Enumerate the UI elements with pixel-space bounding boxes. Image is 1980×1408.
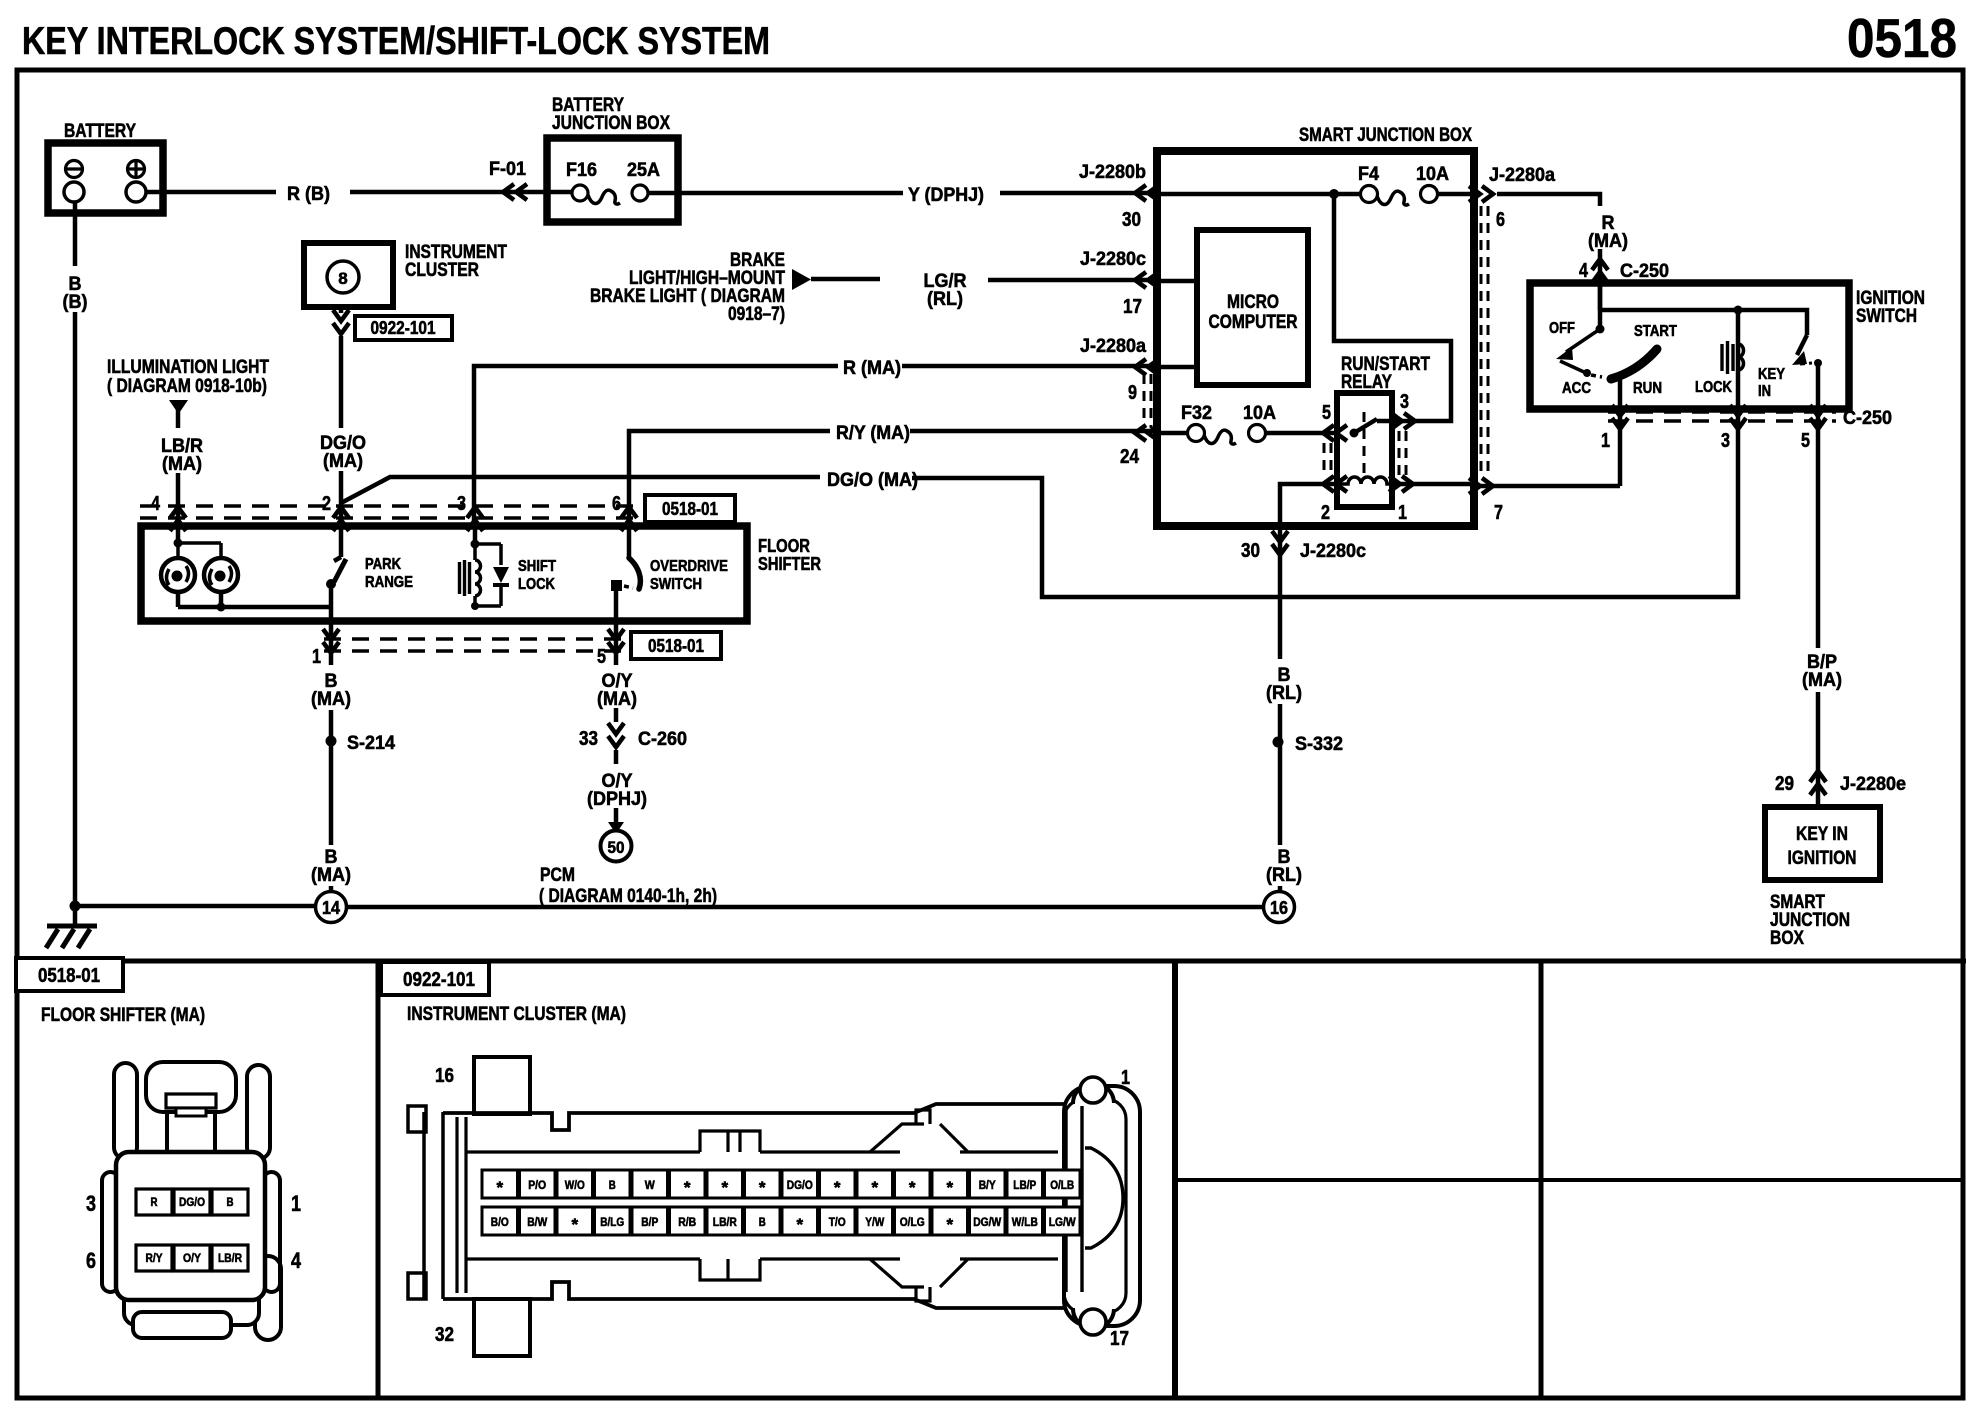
pin 5 arrows — [608, 629, 624, 653]
dashed connector lines above floor shifter — [140, 506, 642, 518]
relay pin 1 wire — [1392, 482, 1474, 487]
svg-text:ILLUMINATION LIGHT: ILLUMINATION LIGHT — [107, 357, 269, 378]
svg-text:17: 17 — [1110, 1328, 1129, 1350]
svg-text:1: 1 — [1601, 430, 1610, 452]
svg-text:Y/W: Y/W — [865, 1215, 885, 1229]
svg-text:SHIFT: SHIFT — [518, 558, 556, 575]
ignition pin 5 arrows — [1810, 405, 1826, 429]
J-2280c entry arrows (17) — [1135, 272, 1159, 288]
svg-text:17: 17 — [1123, 296, 1142, 318]
svg-text:2: 2 — [322, 493, 331, 515]
wire LB/R to floor shifter pin 4 — [176, 473, 181, 543]
svg-text:3: 3 — [1721, 430, 1730, 452]
svg-text:SWITCH: SWITCH — [1856, 306, 1917, 327]
svg-text:*: * — [946, 1215, 953, 1234]
svg-text:(MA): (MA) — [597, 688, 637, 710]
J-2280a entry arrows (9) — [1135, 359, 1159, 375]
J-2280c exit arrows (30) — [1272, 531, 1288, 555]
pin 7 exit arrows — [1469, 478, 1493, 494]
svg-text:29: 29 — [1775, 773, 1794, 795]
svg-text:DG/W: DG/W — [973, 1215, 1002, 1229]
svg-text:C-250: C-250 — [1620, 260, 1669, 282]
pin 6 arrows — [621, 507, 637, 531]
wire B (RL) — [1278, 526, 1283, 891]
overdrive switch — [611, 526, 640, 621]
ground bus wire to 14 and 16 — [75, 906, 1263, 907]
svg-text:5: 5 — [1801, 430, 1810, 452]
svg-text:0518-01: 0518-01 — [662, 499, 718, 519]
svg-text:F-01: F-01 — [489, 158, 526, 180]
ignition pin 1 arrows — [1612, 405, 1628, 429]
svg-text:5: 5 — [1322, 402, 1331, 424]
svg-text:OVERDRIVE: OVERDRIVE — [650, 558, 728, 575]
svg-text:(MA): (MA) — [162, 453, 202, 475]
cluster connector pin label boxes — [482, 1170, 1080, 1235]
svg-text:KEY: KEY — [1758, 366, 1786, 383]
svg-text:*: * — [721, 1178, 728, 1197]
wire cluster to floor shifter pin 2 — [339, 307, 344, 526]
micro computer box — [1197, 230, 1308, 385]
wire B/P (MA) — [1816, 409, 1821, 807]
svg-text:LB/R: LB/R — [713, 1215, 737, 1229]
J-2280e arrows (29) — [1810, 771, 1826, 795]
svg-text:24: 24 — [1120, 446, 1140, 468]
svg-text:B/Y: B/Y — [979, 1178, 996, 1192]
J-2280b entry arrows (30) — [1135, 185, 1159, 201]
ignition rotary pivot — [1596, 325, 1605, 334]
svg-text:R/Y: R/Y — [146, 1251, 163, 1265]
svg-text:LOCK: LOCK — [1695, 379, 1733, 396]
wire O/Y (MA) — [614, 621, 619, 824]
bottom grid horizontal divider — [1175, 1178, 1963, 1182]
svg-text:( DIAGRAM 0918-10b): ( DIAGRAM 0918-10b) — [107, 376, 267, 397]
svg-text:W: W — [645, 1178, 656, 1192]
relay coil — [1340, 477, 1389, 484]
J-2280c exit arrows (24) — [1135, 425, 1159, 441]
svg-text:(B): (B) — [63, 291, 88, 313]
PCM terminal 50 — [601, 831, 632, 862]
svg-text:50: 50 — [608, 838, 625, 857]
svg-text:J-2280a: J-2280a — [1080, 335, 1146, 357]
svg-text:LB/P: LB/P — [1013, 1178, 1036, 1192]
battery B1 — [48, 143, 163, 213]
floor shifter connector drawing — [102, 1062, 281, 1340]
svg-text:3: 3 — [86, 1191, 96, 1216]
svg-text:5: 5 — [597, 646, 606, 668]
svg-text:(MA): (MA) — [311, 864, 351, 886]
svg-text:10A: 10A — [1416, 163, 1449, 185]
svg-text:KEY INTERLOCK SYSTEM/SHIFT-LOC: KEY INTERLOCK SYSTEM/SHIFT-LOCK SYSTEM — [22, 20, 770, 63]
svg-text:B/LG: B/LG — [600, 1215, 624, 1229]
svg-text:S-332: S-332 — [1295, 733, 1343, 755]
svg-text:6: 6 — [1496, 209, 1505, 231]
KEY IN switch blade — [1792, 335, 1822, 409]
instrument cluster box with lamp 8 — [304, 243, 393, 307]
svg-text:F4: F4 — [1358, 163, 1379, 185]
wire to fuse F4 — [1157, 192, 1474, 197]
wire R/Y to fuse F32 — [1157, 431, 1337, 436]
svg-text:1: 1 — [1398, 502, 1407, 524]
fuse F4 10A — [1361, 186, 1438, 206]
svg-text:2: 2 — [1321, 502, 1330, 524]
svg-text:(MA): (MA) — [323, 450, 363, 472]
svg-text:J-2280e: J-2280e — [1840, 773, 1906, 795]
svg-text:OFF: OFF — [1549, 320, 1575, 337]
svg-text:DG/O (MA): DG/O (MA) — [827, 469, 918, 491]
svg-text:J-2280c: J-2280c — [1300, 540, 1366, 562]
connector F-01 arrows — [503, 184, 527, 200]
svg-text:T/O: T/O — [829, 1215, 846, 1229]
svg-text:6: 6 — [612, 493, 621, 515]
svg-text:O/LB: O/LB — [1050, 1178, 1074, 1192]
svg-text:R/Y (MA): R/Y (MA) — [836, 422, 910, 444]
svg-text:*: * — [759, 1178, 766, 1197]
svg-text:SMART JUNCTION BOX: SMART JUNCTION BOX — [1299, 125, 1472, 146]
svg-text:W/O: W/O — [565, 1178, 585, 1192]
svg-text:0918–7): 0918–7) — [728, 304, 785, 325]
relay pin 5 arrows — [1323, 425, 1347, 441]
svg-text:*: * — [909, 1178, 916, 1197]
fuse F32 10A — [1188, 425, 1266, 445]
svg-text:3: 3 — [457, 493, 466, 515]
relay pin 3 arrows — [1391, 413, 1415, 429]
relay switch contact — [1350, 412, 1378, 480]
svg-text:CLUSTER: CLUSTER — [405, 260, 479, 281]
splice S-214 — [326, 736, 337, 747]
bottom panel divider 3 — [1539, 961, 1544, 1398]
wire ignition pin1 to SJB pin7 — [1618, 409, 1623, 486]
wire B (MA) — [329, 621, 334, 891]
ground symbol — [46, 906, 97, 948]
ground terminal 14 — [316, 892, 347, 923]
svg-text:0518: 0518 — [1847, 7, 1957, 69]
bottom panel divider 1 — [376, 961, 381, 1398]
pin 1 arrows — [323, 629, 339, 653]
tag box 0518-01 upper — [645, 495, 735, 522]
svg-text:6: 6 — [86, 1248, 96, 1273]
svg-text:FLOOR SHIFTER (MA): FLOOR SHIFTER (MA) — [41, 1005, 205, 1026]
svg-text:(DPHJ): (DPHJ) — [587, 788, 647, 810]
svg-text:8: 8 — [338, 269, 347, 288]
svg-text:BOX: BOX — [1770, 928, 1804, 949]
svg-text:10A: 10A — [1243, 402, 1276, 424]
svg-text:IGNITION: IGNITION — [1788, 848, 1857, 869]
splice S-332 — [1273, 737, 1284, 748]
svg-text:LOCK: LOCK — [518, 576, 556, 593]
wire J-2280a to ignition — [1497, 194, 1600, 310]
park range switch — [326, 526, 346, 621]
bulb 1 — [161, 558, 195, 592]
svg-text:S-214: S-214 — [347, 732, 395, 754]
svg-text:30: 30 — [1241, 540, 1260, 562]
svg-text:COMPUTER: COMPUTER — [1209, 312, 1298, 333]
svg-text:*: * — [871, 1178, 878, 1197]
svg-text:4: 4 — [291, 1248, 302, 1273]
svg-text:( DIAGRAM 0140-1h, 2h): ( DIAGRAM 0140-1h, 2h) — [539, 886, 717, 907]
svg-text:(MA): (MA) — [1588, 230, 1628, 252]
pin 4 arrows — [170, 507, 186, 531]
svg-text:0922-101: 0922-101 — [371, 318, 436, 338]
svg-text:30: 30 — [1122, 209, 1141, 231]
relay pin 2 wire — [1280, 484, 1337, 526]
relay pin 2 arrows — [1323, 476, 1347, 492]
dashed connector relay pins right — [1399, 431, 1406, 476]
svg-text:B: B — [759, 1215, 766, 1229]
LOCK solenoid — [1722, 310, 1744, 409]
svg-text:33: 33 — [579, 728, 598, 750]
svg-text:B: B — [227, 1195, 234, 1209]
brake light arrow — [792, 269, 811, 290]
svg-text:JUNCTION BOX: JUNCTION BOX — [552, 113, 670, 134]
svg-text:RUN: RUN — [1633, 380, 1662, 397]
svg-text:O/LG: O/LG — [900, 1215, 925, 1229]
svg-text:0922-101: 0922-101 — [403, 969, 475, 991]
ground junction dot — [70, 901, 81, 912]
svg-text:14: 14 — [322, 898, 340, 918]
ignition pin 3 arrows — [1730, 405, 1746, 429]
svg-text:B: B — [609, 1178, 616, 1192]
svg-text:F32: F32 — [1181, 402, 1212, 424]
svg-text:*: * — [496, 1178, 503, 1197]
arrowhead to PCM — [608, 822, 624, 834]
svg-text:16: 16 — [435, 1065, 454, 1087]
svg-text:B/P: B/P — [641, 1215, 658, 1229]
svg-text:FLOOR: FLOOR — [758, 536, 810, 556]
bulb 2 — [204, 558, 238, 592]
svg-text:25A: 25A — [627, 159, 660, 181]
ignition internal feed wire — [1600, 283, 1807, 335]
pin 3 arrows — [467, 507, 483, 531]
svg-text:*: * — [684, 1178, 691, 1197]
svg-text:O/Y: O/Y — [183, 1251, 201, 1265]
svg-text:W/LB: W/LB — [1012, 1215, 1038, 1229]
svg-text:PCM: PCM — [540, 865, 575, 886]
svg-text:R (MA): R (MA) — [843, 357, 901, 379]
connector arrows below cluster — [333, 310, 349, 334]
svg-text:RELAY: RELAY — [1341, 372, 1392, 393]
START crescent blade — [1611, 349, 1657, 379]
svg-text:*: * — [571, 1215, 578, 1234]
battery junction box — [547, 138, 678, 222]
wire Y (DPHJ) — [678, 191, 1157, 196]
svg-text:C-250: C-250 — [1843, 407, 1892, 429]
svg-text:MICRO: MICRO — [1227, 292, 1279, 313]
shift lock solenoid — [460, 526, 510, 610]
dashed connector J-2280a inside — [1144, 374, 1151, 428]
svg-text:LG/W: LG/W — [1049, 1215, 1077, 1229]
svg-text:32: 32 — [435, 1324, 454, 1346]
svg-text:(RL): (RL) — [927, 288, 963, 310]
svg-text:(MA): (MA) — [311, 688, 351, 710]
junction dot F4 feed — [1329, 189, 1339, 199]
tag box 0518-01 lower — [631, 632, 721, 659]
tag box 0518-01 panel — [16, 958, 123, 991]
svg-text:DG/O: DG/O — [787, 1178, 813, 1192]
wire LG/R (RL) — [811, 279, 1197, 281]
svg-text:4: 4 — [151, 493, 161, 515]
svg-text:B/W: B/W — [527, 1215, 548, 1229]
RUN contact wire (pin 1) — [1618, 377, 1623, 409]
svg-text:J-2280b: J-2280b — [1079, 161, 1146, 183]
dashed connector lines below ignition — [1608, 412, 1836, 421]
relay pin 3 wire — [1334, 194, 1451, 421]
svg-text:R: R — [151, 1195, 158, 1209]
ignition switch box — [1530, 283, 1849, 409]
svg-text:DG/O: DG/O — [179, 1195, 205, 1209]
svg-text:C-260: C-260 — [638, 728, 687, 750]
svg-text:16: 16 — [1270, 898, 1288, 918]
svg-text:Y (DPHJ): Y (DPHJ) — [908, 184, 984, 206]
svg-text:PARK: PARK — [365, 556, 402, 573]
relay pin 1 arrows — [1389, 476, 1413, 492]
ground terminal 16 — [1264, 892, 1295, 923]
svg-text:0518-01: 0518-01 — [648, 636, 704, 656]
svg-text:LB/R: LB/R — [218, 1251, 242, 1265]
svg-text:R/B: R/B — [678, 1215, 696, 1229]
instrument cluster connector drawing — [408, 1057, 1140, 1356]
svg-text:(MA): (MA) — [1802, 669, 1842, 691]
svg-text:*: * — [796, 1215, 803, 1234]
illumination bulbs feed — [174, 539, 222, 559]
svg-text:START: START — [1634, 323, 1677, 340]
svg-text:(RL): (RL) — [1266, 864, 1302, 886]
wire R (B) — [146, 192, 680, 193]
svg-text:R (B): R (B) — [287, 183, 330, 205]
svg-text:SWITCH: SWITCH — [650, 576, 702, 593]
svg-text:4: 4 — [1579, 260, 1589, 282]
svg-text:J-2280c: J-2280c — [1080, 248, 1146, 270]
tag box 0922-101 panel — [381, 962, 489, 995]
connector C-250 top arrows — [1592, 259, 1608, 283]
svg-text:(RL): (RL) — [1266, 682, 1302, 704]
svg-text:J-2280a: J-2280a — [1489, 164, 1555, 186]
SJB pin 7 exit wire — [1474, 484, 1620, 489]
wire DG/O (MA) — [341, 409, 1738, 597]
fuse F16 25A — [572, 185, 648, 204]
svg-text:INSTRUMENT CLUSTER (MA): INSTRUMENT CLUSTER (MA) — [407, 1004, 626, 1025]
svg-text:P/O: P/O — [528, 1178, 546, 1192]
smart junction box — [1157, 151, 1474, 526]
wire B (B) — [73, 203, 78, 906]
svg-text:SHIFTER: SHIFTER — [758, 554, 821, 574]
junction dot lock feed — [1734, 306, 1743, 315]
wire R/Y (MA) — [629, 431, 1157, 526]
svg-text:IN: IN — [1758, 383, 1771, 400]
section divider horizontal — [14, 959, 1966, 964]
svg-text:BATTERY: BATTERY — [64, 121, 136, 142]
bulb bus wire — [178, 592, 331, 607]
svg-text:ACC: ACC — [1562, 380, 1591, 397]
connector C-260 arrows — [608, 723, 624, 747]
svg-text:KEY IN: KEY IN — [1796, 824, 1848, 845]
run/start relay box — [1337, 393, 1392, 507]
pin 2 arrows — [333, 507, 349, 531]
svg-text:1: 1 — [291, 1191, 301, 1216]
svg-text:B/O: B/O — [491, 1215, 509, 1229]
dashed connector lines below floor shifter — [324, 639, 628, 651]
svg-text:RANGE: RANGE — [365, 574, 413, 591]
key in ignition box — [1765, 807, 1880, 880]
bottom panel divider 2 — [1172, 961, 1178, 1398]
svg-text:9: 9 — [1128, 382, 1137, 404]
svg-text:0518-01: 0518-01 — [38, 965, 100, 987]
J-2280a exit arrows (6) — [1469, 186, 1493, 202]
svg-text:3: 3 — [1400, 391, 1409, 413]
svg-text:*: * — [946, 1178, 953, 1197]
illumination feed arrow — [169, 400, 188, 414]
wire R (MA) — [474, 366, 1197, 526]
svg-text:7: 7 — [1494, 502, 1503, 524]
OFF contact blade — [1556, 329, 1602, 377]
dashed connector J-2280a right side — [1481, 206, 1488, 477]
floor shifter box — [141, 526, 747, 621]
svg-text:F16: F16 — [566, 159, 597, 181]
svg-text:1: 1 — [312, 646, 321, 668]
tag box 0922-101 — [355, 316, 452, 340]
dashed connector relay pins left — [1324, 443, 1331, 476]
svg-text:*: * — [834, 1178, 841, 1197]
